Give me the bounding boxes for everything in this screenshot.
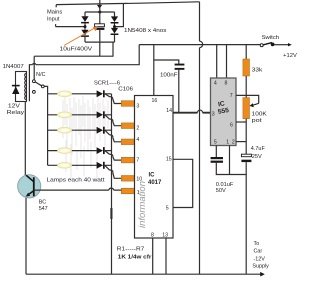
svg-text:33k: 33k <box>252 68 263 74</box>
svg-text:1: 1 <box>226 140 229 146</box>
wire: SCR2 gate to R2 <box>105 115 122 126</box>
resistor R1 1K <box>121 101 135 107</box>
wire: 555 pin5 to 0.01uF <box>215 146 217 158</box>
svg-text:5: 5 <box>166 206 169 212</box>
capacitor 100nF <box>175 64 185 66</box>
wire: switch to +12V arrow <box>275 44 289 46</box>
wire: 555 pin4 to rail <box>216 45 218 78</box>
svg-text:Supply: Supply <box>252 264 269 270</box>
svg-text:4017: 4017 <box>148 180 162 186</box>
wire: 555 pin1 down <box>229 146 231 175</box>
wire: pin15 to pin5 reset loop <box>173 159 193 207</box>
wire: relay coil bottom to BC547 collector <box>24 101 26 175</box>
resistor 33k <box>245 45 247 98</box>
resistor R4 1K <box>121 157 135 163</box>
wire: 4017 pin14 to 555 pin3 (thick) <box>173 112 211 114</box>
wire: SCR4 gate to R4 <box>105 151 122 161</box>
diode D4 bridge bottom-right 1N5408 <box>111 28 118 34</box>
svg-text:Lamps each 40 watt: Lamps each 40 watt <box>47 178 106 184</box>
wire: capacitor bottom down to relay feed wire <box>99 30 101 56</box>
node: junction dot bridge top bar <box>98 11 101 14</box>
svg-text:pot: pot <box>252 118 263 124</box>
svg-text:Switch: Switch <box>262 35 280 41</box>
svg-text:Car: Car <box>254 249 263 255</box>
diode D1 bridge top-left 1N5408 <box>84 12 86 30</box>
wire: 4.7uF bottom to ground rail <box>245 162 247 274</box>
wire: pin 16 to +12V rail <box>153 45 155 96</box>
svg-text:5: 5 <box>214 140 217 146</box>
svg-text:3: 3 <box>136 104 139 110</box>
svg-text:4: 4 <box>214 81 217 87</box>
wire: 555 pin7 to pot node <box>236 95 259 103</box>
wire: 100nF tap from pin16 wire <box>154 60 179 64</box>
IC U1 555 box <box>211 78 237 146</box>
wire: bridge top bar <box>85 11 115 13</box>
lamp row 4 wire <box>48 150 112 152</box>
svg-text:Relay: Relay <box>7 110 25 116</box>
relay 12V box <box>16 72 27 102</box>
svg-text:10: 10 <box>136 177 142 183</box>
svg-text:3: 3 <box>212 112 215 118</box>
transistor Q1 BC547 <box>18 175 41 198</box>
lamp L3 <box>58 127 72 133</box>
wire: BC547 emitter to ground rail <box>25 198 27 274</box>
wire: SCR5 gate to R5 <box>105 165 122 178</box>
SCR1 C106 <box>97 90 103 97</box>
svg-text:2: 2 <box>136 126 139 132</box>
wire: 4017 pin8 to ground rail <box>152 238 154 274</box>
wire: 555 pin6 <box>236 121 246 123</box>
wire: relay pole to lamp bus <box>44 86 47 93</box>
watermark scribbles <box>63 96 108 180</box>
svg-text:6: 6 <box>230 123 233 129</box>
svg-text:15: 15 <box>166 157 172 163</box>
svg-text:R1-----R7: R1-----R7 <box>117 246 145 252</box>
diode D2 bridge bottom-left 1N5408 <box>81 30 88 36</box>
node: bridge right AC junction <box>113 25 116 28</box>
SCR3 C106 <box>97 127 103 134</box>
diode D3 bridge top-right 1N5408 <box>114 12 116 28</box>
resistor R3 1K <box>121 139 135 145</box>
lamp L4 <box>58 148 72 154</box>
watermark dark dash on bus <box>110 208 112 219</box>
svg-text:100nF: 100nF <box>160 72 178 78</box>
svg-text:BC: BC <box>39 200 47 206</box>
relay armature <box>35 82 42 86</box>
wire: bridge bottom bar <box>85 41 115 43</box>
wire: mains N lower lead <box>56 24 85 27</box>
label arrow: 10uF/400V <box>64 28 95 46</box>
svg-text:Mains: Mains <box>47 10 63 16</box>
svg-text:7: 7 <box>230 93 233 99</box>
svg-text:50V: 50V <box>216 188 226 194</box>
capacitor 10uF/400V plates <box>95 24 105 27</box>
svg-text:12V: 12V <box>8 104 21 110</box>
relay contact N/C <box>33 80 36 83</box>
capacitor 0.01uF 50V <box>211 157 223 159</box>
svg-text:+12V: +12V <box>283 53 297 59</box>
node: hop blob where DC line crosses mains top wire <box>97 5 102 9</box>
svg-text:2: 2 <box>232 140 235 146</box>
resistor R2 1K <box>121 123 135 129</box>
svg-text:4.7uF: 4.7uF <box>251 146 266 152</box>
svg-text:IC: IC <box>149 173 156 179</box>
wire: mains L top lead <box>56 2 199 7</box>
lamp row 1 wire <box>48 93 112 95</box>
svg-text:information: information <box>137 181 148 228</box>
wire: +12V rail left end down and left to relay coil <box>29 45 139 102</box>
svg-text:To: To <box>254 241 260 247</box>
lamp row 5 wire <box>48 164 112 166</box>
wire: 0.01uF bottom junction <box>216 163 246 175</box>
diode 1N4007 across relay coil <box>12 85 20 87</box>
wire: 555 pin2 <box>236 141 246 143</box>
svg-text:14: 14 <box>166 108 172 114</box>
svg-text:13: 13 <box>162 233 168 239</box>
svg-text:1K 1/4w cfr: 1K 1/4w cfr <box>118 255 153 261</box>
resistor R6 1K <box>121 188 135 194</box>
wire: lamp supply bus <box>47 94 49 166</box>
svg-text:8: 8 <box>225 81 228 87</box>
wire: main DC vertical from top rail down right side <box>200 2 203 274</box>
lamp L2 <box>58 112 72 118</box>
SCR4 C106 <box>97 147 103 154</box>
relay coil loops <box>25 73 27 100</box>
SCR2 C106 <box>97 111 103 118</box>
capacitor 4.7uF 25V <box>241 154 251 157</box>
svg-text:SCR1----6: SCR1----6 <box>94 81 120 87</box>
lamp row 3 wire <box>48 129 112 131</box>
switch SW1 <box>260 44 263 47</box>
wire: SCR3 gate to R3 <box>105 130 122 142</box>
svg-text:0.01uF: 0.01uF <box>216 182 234 188</box>
node: bridge left AC junction <box>84 25 87 28</box>
lamp L1 <box>58 91 72 97</box>
svg-text:-12V: -12V <box>254 257 266 263</box>
relay pole contact <box>41 85 44 88</box>
wire: pot bottom to pin6/pin2/4.7uF <box>245 119 247 155</box>
wire: branch from top rail down to right bridge junction <box>115 3 124 26</box>
wire: BC547 base to R6 <box>35 188 122 190</box>
svg-text:547: 547 <box>39 206 48 212</box>
svg-text:100K: 100K <box>252 112 267 118</box>
wire: 100nF bottom to pin3 line <box>178 70 180 113</box>
svg-text:16: 16 <box>152 98 158 104</box>
lamp L5 <box>58 162 72 168</box>
lamp row 2 wire <box>48 114 112 116</box>
wire: 555 pin8 to rail <box>226 45 228 78</box>
svg-text:8: 8 <box>151 233 154 239</box>
wire: bridge output to relay N/C contact <box>34 42 113 80</box>
svg-text:C106: C106 <box>118 86 133 92</box>
IC U2 4017 box <box>135 96 174 239</box>
svg-text:Input: Input <box>47 16 60 22</box>
SCR5 C106 <box>97 162 103 169</box>
wire: SCR1 gate to R1 <box>105 94 122 104</box>
wire: +12V rail <box>139 44 260 46</box>
svg-text:4: 4 <box>136 137 139 143</box>
svg-text:25V: 25V <box>252 154 262 160</box>
svg-text:7: 7 <box>136 157 139 163</box>
resistor R5 1K <box>121 176 135 182</box>
svg-text:N/C: N/C <box>36 72 45 78</box>
potentiometer 100K body <box>243 98 250 119</box>
svg-text:1N5408 x 4nos: 1N5408 x 4nos <box>124 28 167 34</box>
relay contact N/O <box>33 91 36 94</box>
svg-text:10uF/400V: 10uF/400V <box>60 46 93 52</box>
svg-text:1: 1 <box>137 190 140 196</box>
wire: 4017 pin13 to ground rail <box>165 238 167 274</box>
wire: bottom ground rail <box>26 273 261 275</box>
svg-text:1N4007: 1N4007 <box>3 64 24 70</box>
wire: capacitor feed vertical <box>99 0 101 24</box>
potentiometer 100K wiper arrow <box>252 103 258 105</box>
wire: SCR cathode bus <box>111 94 113 274</box>
